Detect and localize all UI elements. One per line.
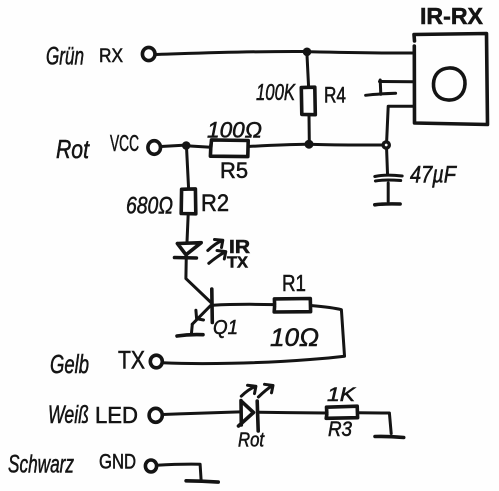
- resistor R3: [326, 406, 357, 418]
- svg-text:10Ω: 10Ω: [270, 324, 319, 352]
- Q1 ground stroke: [177, 335, 203, 336]
- wire LED to Q1 collector: [186, 255, 211, 303]
- svg-text:VCC: VCC: [110, 130, 139, 156]
- wire R5 to R4 node: [248, 144, 306, 146]
- wire R4 lead bottom: [308, 115, 311, 141]
- terminal RX: [142, 47, 155, 60]
- GND end stroke: [186, 481, 218, 482]
- svg-text:R3: R3: [328, 418, 352, 441]
- svg-text:100K: 100K: [256, 79, 296, 105]
- wire GND line: [157, 464, 201, 480]
- LED arrow 1: [241, 387, 255, 397]
- terminal TX: [150, 355, 162, 368]
- svg-text:1K: 1K: [327, 385, 357, 406]
- node RX junction: [303, 48, 312, 57]
- wire TX line: [163, 356, 345, 363]
- resistor R2: [181, 189, 196, 214]
- Q1 emitter to ground: [190, 324, 194, 334]
- wire R2 lead bottom: [187, 214, 188, 242]
- svg-text:Gelb: Gelb: [50, 349, 89, 379]
- svg-text:Rot: Rot: [238, 430, 265, 452]
- wire VCC to junction: [161, 145, 183, 146]
- resistor R1: [274, 299, 310, 313]
- diode cathode bar: [175, 256, 197, 260]
- pin2 tick vertical: [379, 80, 383, 94]
- label R5: [220, 158, 248, 183]
- wire RX line: [156, 51, 307, 54]
- label GND: [99, 451, 136, 474]
- label Grün: [46, 43, 84, 71]
- wire Q1 base to R1: [213, 303, 274, 307]
- svg-text:Weiß: Weiß: [48, 401, 89, 429]
- svg-text:R5: R5: [220, 158, 248, 183]
- svg-text:RX: RX: [99, 46, 123, 67]
- diode LED Rot cathode bar: [257, 401, 258, 431]
- svg-text:TX: TX: [118, 347, 145, 375]
- label IR: [229, 237, 250, 257]
- svg-text:Schwarz: Schwarz: [8, 451, 74, 479]
- wire R2 lead top: [187, 149, 189, 189]
- label LED: [95, 402, 138, 428]
- wire VCC rail to cap node: [313, 143, 383, 147]
- wire LED terminal to diode: [163, 412, 241, 415]
- label 100 Ohm: [207, 118, 262, 143]
- diode LED Rot triangle: [239, 401, 254, 427]
- label 680 Ohm: [126, 193, 173, 220]
- wire diode to R3: [259, 411, 327, 415]
- wire R3 to end bracket: [358, 413, 392, 434]
- transistor Q1 emitter: [192, 306, 210, 325]
- diode IR TX LED: [177, 243, 201, 255]
- IR arrow 2: [209, 252, 225, 263]
- label RX: [99, 46, 123, 67]
- capacitor C1 lead bottom: [387, 183, 390, 202]
- wire IR-RX pin2 stub: [380, 80, 414, 83]
- label R1: [282, 270, 306, 296]
- pin2 tick horizontal: [366, 93, 396, 95]
- IR-RX lens circle: [433, 68, 465, 100]
- label 1K: [327, 385, 357, 406]
- LED arrow 2: [258, 386, 272, 397]
- node VCC/cap junction: [381, 140, 391, 150]
- node VCC junction: [182, 141, 191, 150]
- transistor Q1 bar: [210, 289, 214, 323]
- svg-text:R2: R2: [201, 190, 229, 217]
- capacitor C1 lead top: [385, 149, 389, 174]
- IR-RX module box: [414, 34, 488, 125]
- svg-text:R1: R1: [282, 270, 306, 296]
- terminal VCC: [148, 141, 161, 155]
- svg-text:680Ω: 680Ω: [126, 193, 173, 220]
- label Weiß: [48, 401, 89, 429]
- label Q1: [213, 317, 238, 339]
- terminal LED: [149, 408, 162, 422]
- terminal GND: [145, 460, 156, 472]
- label Gelb: [50, 349, 89, 379]
- label 10 Ohm: [270, 324, 319, 352]
- label 100K: [256, 79, 296, 105]
- wire junction to R5: [190, 146, 211, 147]
- label TX (terminal): [118, 347, 145, 375]
- label IR-RX: [420, 3, 484, 29]
- label 47uF: [410, 162, 457, 189]
- wire IR-RX pin3 to VCC node: [387, 106, 414, 142]
- label TX: [227, 255, 248, 272]
- resistor R5: [210, 140, 248, 157]
- Q1 emitter arrowhead: [196, 310, 204, 320]
- label Schwarz: [8, 451, 74, 479]
- svg-text:LED: LED: [95, 402, 138, 428]
- svg-text:IR-RX: IR-RX: [420, 3, 484, 29]
- label VCC: [110, 130, 139, 156]
- svg-text:GND: GND: [99, 451, 136, 474]
- label Rot: [56, 134, 90, 164]
- label Rot (LED): [238, 430, 265, 452]
- label R3: [328, 418, 352, 441]
- capacitor C1 plates: [375, 175, 402, 176]
- label R2: [201, 190, 229, 217]
- svg-text:TX: TX: [227, 255, 248, 272]
- svg-text:47µF: 47µF: [410, 162, 457, 189]
- IR arrow 1: [208, 241, 222, 251]
- resistor R4: [301, 87, 315, 115]
- wire R1 to TX line: [311, 306, 345, 356]
- svg-text:Q1: Q1: [213, 317, 238, 339]
- wire junction to IR-RX box: [310, 52, 414, 53]
- label R4: [324, 83, 346, 108]
- svg-text:R4: R4: [324, 83, 346, 108]
- capacitor C1 end stroke: [375, 202, 400, 207]
- svg-text:Grün: Grün: [46, 43, 84, 71]
- wire R4 lead top: [307, 55, 309, 87]
- node R5/R4 junction: [305, 140, 314, 149]
- svg-text:Rot: Rot: [56, 134, 90, 164]
- end bracket stroke: [375, 436, 404, 437]
